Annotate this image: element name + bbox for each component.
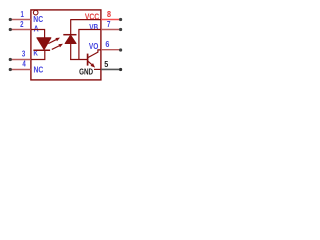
pin 6 dot [119, 48, 122, 51]
svg-text:8: 8 [107, 10, 111, 19]
pin 7 wire [101, 29, 121, 31]
svg-text:1: 1 [21, 10, 25, 19]
svg-text:5: 5 [104, 60, 108, 69]
pin 7 dot [119, 28, 122, 31]
photodiode bottom wire [70, 44, 72, 61]
VCC rail [71, 19, 101, 21]
svg-text:NC: NC [33, 15, 43, 24]
pin 2 wire [10, 29, 31, 31]
pin 2 dot [9, 28, 12, 31]
pin 8 dot [119, 18, 122, 21]
pin 8 wire (VCC net, red) [101, 19, 121, 21]
emission arrow 2 [52, 44, 63, 50]
pin 3 wire [10, 59, 31, 61]
photodiode triangle [65, 35, 76, 43]
emitter arrowhead [91, 63, 96, 68]
emitter line [88, 61, 93, 65]
op-amp U1 body outline [31, 10, 101, 80]
svg-text:2: 2 [20, 20, 24, 29]
pin 4 dot [9, 68, 12, 71]
svg-text:7: 7 [107, 20, 111, 29]
pin 4 wire [10, 69, 31, 71]
svg-text:NC: NC [34, 65, 44, 74]
svg-text:VO: VO [89, 42, 99, 51]
svg-text:A: A [34, 24, 39, 33]
svg-text:GND: GND [79, 68, 93, 77]
background [0, 0, 132, 90]
svg-text:6: 6 [105, 40, 109, 49]
photodiode D2 top wire [70, 19, 72, 34]
wire A anode path [31, 30, 45, 39]
emitter to pin5 wire [94, 68, 101, 70]
collector line [87, 50, 101, 58]
wire K cathode path [31, 51, 45, 60]
VB line [79, 30, 101, 60]
svg-text:VB: VB [89, 23, 98, 32]
pin 5 dot [119, 68, 122, 71]
transistor Q1 base bar [87, 54, 89, 66]
pin 5 wire (GND net, dark) [101, 68, 121, 70]
emission arrow 1 [48, 38, 60, 44]
LED D1 triangle [37, 38, 51, 50]
photodiode cathode bar [63, 34, 76, 36]
pin 1 wire [10, 19, 31, 21]
svg-text:4: 4 [22, 59, 26, 68]
svg-text:3: 3 [22, 50, 26, 59]
pin 6 wire [101, 49, 121, 51]
pin 1 indicator circle [33, 10, 38, 15]
base rail [70, 59, 88, 61]
pin 1 dot [9, 18, 12, 21]
LED cathode bar [33, 49, 50, 51]
pin 3 dot [9, 58, 12, 61]
